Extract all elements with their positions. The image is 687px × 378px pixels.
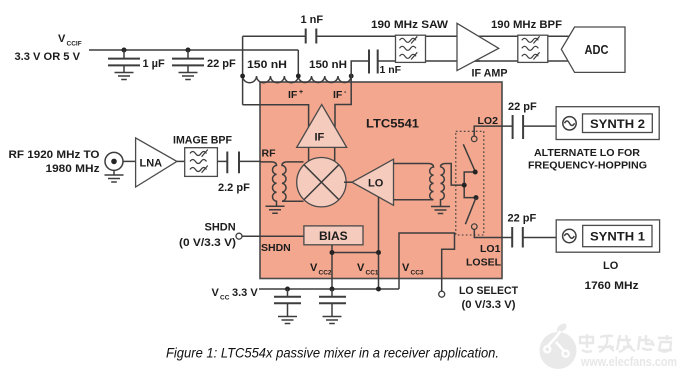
svg-text:LO SELECT: LO SELECT xyxy=(459,285,518,297)
ground under T1 primary xyxy=(266,206,285,213)
wire VCC3 path xyxy=(399,233,455,291)
node junction L2 right xyxy=(349,74,354,79)
node junction center tap xyxy=(296,74,301,79)
svg-text:1760 MHz: 1760 MHz xyxy=(585,280,640,292)
svg-text:BIAS: BIAS xyxy=(319,229,348,243)
transformer T2 LO secondary xyxy=(441,164,462,207)
svg-text:IF: IF xyxy=(315,132,325,144)
wire LO1 out xyxy=(474,229,512,237)
pin label VCC2 xyxy=(310,262,332,277)
svg-text:22 pF: 22 pF xyxy=(508,213,537,225)
wire C9 to SYNTH1 xyxy=(523,237,556,239)
SYNTH1 caption LO 1760 MHz xyxy=(585,260,640,292)
wire IF+ into chip xyxy=(243,105,309,127)
wire bottom IF rail to SAW xyxy=(378,60,396,62)
svg-text:Figure 1: LTC554x passive mixe: Figure 1: LTC554x passive mixer in a rec… xyxy=(166,346,499,361)
svg-text:+: + xyxy=(299,89,303,96)
pin label IF- xyxy=(333,89,347,101)
ground under T2 xyxy=(431,207,450,214)
wire top IF rail to SAW xyxy=(316,35,395,37)
wire C8 to SYNTH2 xyxy=(523,125,556,127)
svg-text:CC1: CC1 xyxy=(366,270,379,277)
wire J1 to LNA xyxy=(123,160,136,162)
capacitor C1 1uF xyxy=(108,50,165,72)
svg-text:CC2: CC2 xyxy=(319,270,332,277)
svg-text:1 µF: 1 µF xyxy=(143,58,166,70)
node junction C1 xyxy=(122,48,127,53)
svg-text:FREQUENCY-HOPPING: FREQUENCY-HOPPING xyxy=(528,160,647,172)
wire IF- stub up to bottom rail xyxy=(351,61,369,76)
inductor L2 150nH xyxy=(298,59,351,83)
svg-text:ALTERNATE LO FOR: ALTERNATE LO FOR xyxy=(534,147,640,159)
block SYNTH 2 xyxy=(556,107,659,140)
ground under C1 xyxy=(115,73,134,80)
svg-text:CC3: CC3 xyxy=(411,270,424,277)
transformer T1 RF secondary xyxy=(282,162,304,201)
svg-text:LNA: LNA xyxy=(140,158,163,170)
pin label VCC3 xyxy=(402,262,424,277)
node junction C7 xyxy=(330,287,335,292)
svg-text:SYNTH 2: SYNTH 2 xyxy=(590,119,645,131)
op-amp U2 IF AMP xyxy=(457,23,508,79)
svg-text:www.elecfans.com: www.elecfans.com xyxy=(580,354,677,369)
wire VCCIF drop to inductor center tap xyxy=(297,50,299,76)
LO SELECT label xyxy=(459,285,518,311)
svg-text:SYNTH 1: SYNTH 1 xyxy=(590,232,646,244)
svg-text:IF: IF xyxy=(288,89,298,101)
svg-text:1980 MHz: 1980 MHz xyxy=(46,163,101,175)
svg-text:V: V xyxy=(58,33,66,45)
node junction C6 xyxy=(285,287,290,292)
node junction VCC2 link xyxy=(330,250,335,255)
VCC supply label xyxy=(212,287,259,302)
capacitor C9 22pF LO1 xyxy=(508,213,537,248)
svg-text:IF AMP: IF AMP xyxy=(472,68,508,80)
block BIAS xyxy=(304,226,363,245)
connector J1 RF input xyxy=(105,152,123,174)
svg-text:22 pF: 22 pF xyxy=(207,58,236,70)
svg-text:V: V xyxy=(357,262,365,274)
pin label IF+ xyxy=(288,89,303,101)
pin label RF xyxy=(262,148,277,160)
inductor L1 150nH xyxy=(243,59,299,83)
capacitor C8 22pF LO2 xyxy=(508,101,537,139)
watermark url xyxy=(580,354,677,369)
wire SAW to IF amp top xyxy=(425,35,482,37)
capacitor C5 2.2pF xyxy=(218,152,250,195)
wire C5 to chip RF pin xyxy=(239,160,261,162)
svg-text:LTC5541: LTC5541 xyxy=(366,119,420,131)
wire IF amp to BPF bottom xyxy=(470,60,568,62)
svg-text:CCIF: CCIF xyxy=(67,41,82,48)
svg-text:LOSEL: LOSEL xyxy=(466,257,502,269)
node junction C2 xyxy=(186,48,191,53)
svg-text:LO: LO xyxy=(603,260,619,272)
svg-text:3.3 V: 3.3 V xyxy=(232,287,258,299)
IC U1 LTC5541 body xyxy=(260,82,502,279)
svg-text:1 nF: 1 nF xyxy=(380,64,402,76)
node VCCIF supply label xyxy=(15,33,82,63)
wire VCC2 vertical xyxy=(331,245,333,289)
filter FL1 190 MHz SAW xyxy=(371,19,449,62)
node junction VCC1 link xyxy=(376,250,381,255)
svg-text:150 nH: 150 nH xyxy=(309,59,347,71)
mixer M1 xyxy=(297,158,346,207)
figure caption xyxy=(166,346,499,361)
svg-text:190 MHz BPF: 190 MHz BPF xyxy=(491,19,562,31)
wire IF amp base to mixer left xyxy=(308,147,310,163)
transformer T2 LO primary xyxy=(394,164,434,200)
node junction L1 left xyxy=(240,74,245,79)
svg-text:RF: RF xyxy=(262,148,277,160)
svg-text:V: V xyxy=(310,262,318,274)
svg-text:LO2: LO2 xyxy=(478,115,499,127)
svg-text:22 pF: 22 pF xyxy=(508,101,537,113)
transformer T1 RF primary xyxy=(260,162,277,206)
watermark chinese text xyxy=(579,334,672,352)
wire SAW to IF amp bottom xyxy=(425,60,480,62)
wire LNA to image filter xyxy=(177,160,185,162)
ground under C7 xyxy=(323,317,342,324)
wire IF+ branch vertical xyxy=(242,36,244,105)
SYNTH2 caption xyxy=(528,147,647,172)
svg-text:V: V xyxy=(212,287,220,299)
pin label VCC1 xyxy=(357,262,379,277)
svg-text:190 MHz SAW: 190 MHz SAW xyxy=(371,19,449,31)
svg-text:ADC: ADC xyxy=(585,42,610,57)
svg-text:IMAGE BPF: IMAGE BPF xyxy=(173,135,232,147)
wire LO2 out xyxy=(474,126,512,136)
terminal SHDN xyxy=(236,233,242,239)
wire VCC rail xyxy=(259,288,399,290)
svg-text:RF 1920 MHz TO: RF 1920 MHz TO xyxy=(9,149,100,161)
svg-text:1 nF: 1 nF xyxy=(301,14,324,26)
svg-text:2.2 pF: 2.2 pF xyxy=(218,182,250,194)
capacitor C6 xyxy=(274,289,301,316)
svg-text:CC: CC xyxy=(220,295,230,302)
switch box LOSEL dashed xyxy=(456,131,484,235)
pin label LO2 xyxy=(478,115,499,127)
node junction VCC1 xyxy=(376,287,381,292)
block ADC xyxy=(561,27,625,72)
svg-text:SHDN: SHDN xyxy=(261,242,291,254)
wire SHDN to BIAS xyxy=(242,235,304,237)
capacitor C4 1nF xyxy=(369,50,402,77)
RF input label xyxy=(9,149,101,175)
svg-text:(0 V/3.3 V): (0 V/3.3 V) xyxy=(179,237,236,249)
watermark logo xyxy=(540,323,577,369)
wire mixer to LO buffer xyxy=(344,181,352,183)
ground under C2 xyxy=(179,73,198,80)
SHDN input label xyxy=(179,222,236,250)
pin label LO1 LOSEL xyxy=(466,243,502,269)
svg-text:LO: LO xyxy=(368,178,384,190)
switch S1 lower contact xyxy=(465,198,477,230)
wire VCC2 to VCC1 link xyxy=(332,252,379,254)
wire VCCIF rail xyxy=(89,49,298,51)
filter FL3 IMAGE BPF xyxy=(173,135,232,177)
switch S1 upper contact xyxy=(463,136,477,171)
pin label SHDN xyxy=(261,242,291,254)
filter FL2 190 MHz BPF xyxy=(491,19,562,62)
ground under C6 xyxy=(278,317,297,324)
ground under J1 xyxy=(105,175,124,182)
capacitor C3 1nF xyxy=(301,14,324,44)
wire IF- drop into chip xyxy=(335,76,351,127)
op-amp U1a IF amplifier xyxy=(297,105,347,148)
svg-text:V: V xyxy=(402,262,410,274)
wire IF amp to BPF top xyxy=(470,35,569,37)
capacitor C7 xyxy=(319,289,346,316)
svg-text:3.3 V OR 5 V: 3.3 V OR 5 V xyxy=(15,51,81,63)
svg-text:150 nH: 150 nH xyxy=(247,59,287,71)
svg-text:IF: IF xyxy=(333,89,343,101)
wire top IF rail left xyxy=(243,35,306,37)
amplifier U3 LNA xyxy=(136,138,177,187)
wire IF amp base to mixer right xyxy=(334,147,336,163)
switch common bracket xyxy=(462,170,479,201)
block SYNTH 1 xyxy=(556,220,659,252)
capacitor C2 22pF xyxy=(172,50,236,72)
terminal LO SELECT xyxy=(439,291,445,297)
svg-text:LO1: LO1 xyxy=(480,243,501,255)
wire VCC1 vertical xyxy=(378,197,380,289)
amplifier U1b LO buffer xyxy=(352,159,394,205)
svg-text:SHDN: SHDN xyxy=(205,222,236,234)
svg-text:(0 V/3.3 V): (0 V/3.3 V) xyxy=(462,299,516,311)
wire image filter to C5 xyxy=(217,160,227,162)
